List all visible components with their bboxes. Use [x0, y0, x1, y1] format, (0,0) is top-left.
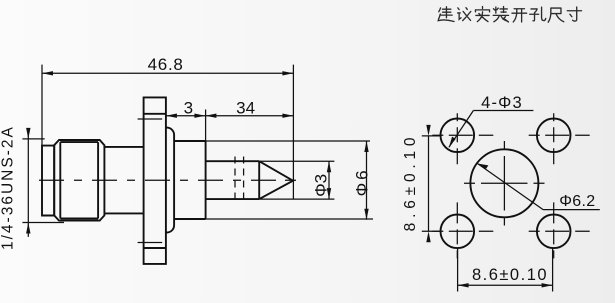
char zhuang (mount) — [493, 7, 508, 22]
leader arrow phi6.2 — [478, 164, 489, 170]
phi3 ext lines — [259, 161, 334, 199]
right view dim texts — [402, 94, 595, 284]
hex nut inner lines — [60, 142, 98, 218]
svg-text:3: 3 — [184, 99, 193, 118]
right view dims thin lines — [422, 111, 600, 292]
phi6 dim line — [366, 141, 368, 220]
crosshair v bottom-right — [553, 202, 555, 258]
46.8 arrows — [42, 71, 53, 75]
dim 46.8 line — [42, 72, 293, 74]
char kong (hole) — [530, 7, 546, 21]
char cun (inch) — [567, 7, 581, 21]
thread dim arrows — [26, 128, 30, 139]
hidden dashed verticals — [235, 157, 244, 204]
ext line right of 46.8 — [292, 65, 294, 200]
hole circle bottom-left — [441, 215, 475, 249]
crosshair v bottom-left — [456, 202, 458, 258]
flange plate — [144, 97, 166, 264]
char chi (ruler) — [548, 8, 564, 22]
cone tip — [259, 161, 293, 199]
34 dim arrows — [205, 114, 216, 118]
char an (install) — [475, 7, 489, 22]
thread ticks — [22, 139, 64, 223]
phi3 dim line — [328, 161, 330, 199]
right view group — [441, 119, 571, 249]
crosshair h top-left — [432, 134, 493, 136]
phi6 body — [174, 141, 206, 219]
phi6 ext lines — [206, 141, 373, 219]
barrel thread body — [42, 146, 54, 216]
cylinder between hex and flange — [104, 147, 143, 214]
left dim line 8.6 — [428, 136, 430, 231]
svg-text:Φ6.2: Φ6.2 — [559, 193, 595, 210]
crosshair h bottom-right — [529, 230, 590, 232]
char jian (build) — [438, 7, 454, 22]
crosshair h bottom-left — [432, 230, 493, 232]
thread dim line — [27, 130, 29, 237]
leader 4-phi3 — [449, 111, 534, 148]
center circle phi6.2 — [470, 149, 538, 217]
ext line left of 46.8 — [41, 65, 43, 146]
right view crosshairs — [432, 113, 589, 258]
hole circle bottom-right — [537, 215, 571, 249]
left view group — [39, 97, 296, 264]
hex nut outline — [54, 140, 104, 221]
pin cylinder — [206, 161, 260, 199]
left view thin lines — [22, 65, 373, 237]
title CJK drawn strokes — [438, 7, 582, 23]
flange hole short lines — [138, 119, 163, 243]
right view arrowheads — [426, 125, 552, 288]
char yi (propose) — [458, 8, 471, 21]
char kai (open) — [512, 9, 527, 22]
left view arrowheads — [26, 71, 369, 233]
dim 3-34 line — [166, 115, 294, 117]
svg-text:1/4-36UNS-2A: 1/4-36UNS-2A — [0, 125, 16, 250]
left dim ticks — [422, 136, 440, 231]
svg-text:34: 34 — [236, 99, 255, 118]
svg-text:8.6±0.10: 8.6±0.10 — [472, 266, 548, 284]
leader phi6.2 — [478, 164, 600, 210]
bottom dim line — [458, 284, 553, 286]
centerline — [39, 179, 296, 181]
crosshair v top-left — [456, 113, 458, 164]
svg-text:46.8: 46.8 — [148, 55, 184, 74]
hole circle top-left — [441, 119, 475, 153]
crosshair v top-right — [553, 113, 555, 164]
bottom dim ext lines — [458, 249, 553, 292]
3 dim arrows — [166, 114, 177, 118]
hole circle top-right — [537, 119, 571, 153]
left dim arrows — [426, 125, 430, 136]
svg-text:Φ6: Φ6 — [352, 167, 371, 196]
left view dimension texts — [0, 55, 371, 250]
ext line at step — [205, 110, 207, 142]
phi3 arrows — [327, 161, 331, 172]
crosshair h top-right — [529, 134, 590, 136]
bottom dim arrows — [458, 283, 469, 287]
flange inner horizontals — [144, 114, 166, 248]
svg-text:4-Φ3: 4-Φ3 — [481, 94, 523, 112]
crosshair h center circle — [464, 182, 545, 184]
crosshair v center circle — [503, 141, 505, 226]
leader arrow 4-phi3 — [449, 137, 456, 148]
svg-text:Φ3: Φ3 — [312, 174, 331, 197]
boss behind flange — [166, 128, 174, 233]
svg-text:8.6±0.10: 8.6±0.10 — [402, 133, 419, 232]
phi6 arrows — [364, 141, 368, 152]
